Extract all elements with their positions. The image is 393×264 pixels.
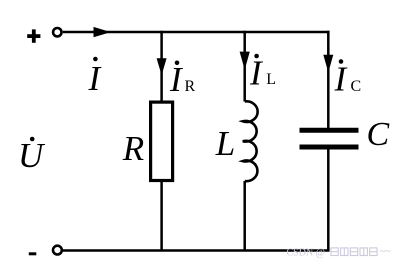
wire bottom horizontal xyxy=(63,249,330,252)
arrow IL xyxy=(240,52,250,70)
watermark CSDN xyxy=(287,247,392,259)
wire R branch top xyxy=(160,31,163,101)
label IC dot xyxy=(339,59,344,64)
wire R branch bottom xyxy=(160,182,163,251)
wire top horizontal xyxy=(63,31,330,34)
svg-text:C: C xyxy=(367,116,390,153)
capacitor C bottom plate xyxy=(300,145,359,150)
top terminal circle xyxy=(53,28,61,36)
wire L branch top xyxy=(243,31,246,102)
wire C branch top xyxy=(327,31,330,128)
current arrow I on top wire xyxy=(94,27,111,37)
svg-text:L: L xyxy=(215,124,235,163)
terminal minus sign xyxy=(29,252,37,255)
inductor L coil xyxy=(243,101,258,181)
svg-text:I: I xyxy=(169,60,184,99)
capacitor C top plate xyxy=(300,128,359,133)
label IR dot xyxy=(175,61,180,66)
wire L branch bottom xyxy=(243,181,246,251)
wire C branch bottom xyxy=(327,149,330,251)
bottom terminal circle xyxy=(53,246,62,255)
svg-text:I: I xyxy=(334,60,349,99)
svg-text:I: I xyxy=(249,54,264,93)
svg-text:I: I xyxy=(88,59,103,98)
svg-text:CSDN @: CSDN @ xyxy=(287,248,325,259)
label U dot xyxy=(30,137,35,142)
resistor R xyxy=(151,102,173,180)
svg-text:L: L xyxy=(266,71,276,88)
arrow IR xyxy=(157,58,167,75)
arrow IC xyxy=(323,55,333,73)
label IL dot xyxy=(254,54,259,59)
terminal plus sign xyxy=(27,29,40,42)
label I dot xyxy=(93,57,98,62)
svg-text:R: R xyxy=(122,129,144,168)
svg-text:~~: ~~ xyxy=(380,247,392,258)
svg-text:U: U xyxy=(18,136,46,175)
svg-text:C: C xyxy=(351,78,362,95)
svg-text:R: R xyxy=(185,78,196,95)
